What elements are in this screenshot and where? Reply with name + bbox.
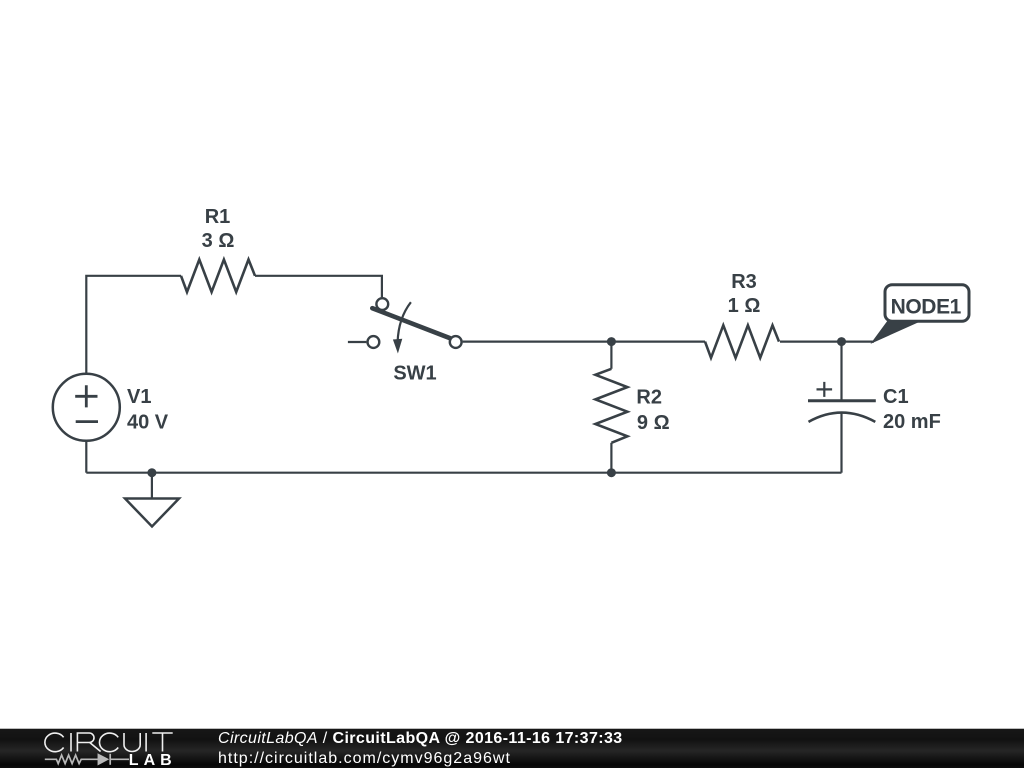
- resistor R2: [595, 369, 627, 443]
- wire R2 bottom: [610, 443, 612, 473]
- wire SW1 right terminal to node A: [463, 341, 612, 343]
- switch SW1 actuation arrow: [398, 302, 411, 342]
- logo letter I: [70, 733, 72, 752]
- svg-text:C1: C1: [883, 386, 909, 408]
- capacitor C1 polarity plus sign: [817, 382, 833, 397]
- wire R3 to node B: [780, 341, 842, 343]
- svg-text:R1: R1: [205, 206, 231, 228]
- logo letter T: [152, 733, 172, 752]
- capacitor C1 curved bottom plate: [809, 413, 876, 422]
- svg-text:40 V: 40 V: [127, 412, 169, 434]
- bottom net junction dot at R2: [607, 468, 616, 477]
- voltage source V1: [53, 374, 120, 441]
- V1 minus sign: [76, 420, 98, 423]
- svg-text:SW1: SW1: [393, 363, 436, 385]
- footer url line 2: [218, 750, 511, 768]
- svg-text:20 mF: 20 mF: [883, 411, 941, 433]
- logo letter C: [45, 733, 64, 752]
- wire R2 top: [610, 342, 612, 369]
- wire node B to NODE1 flag tip: [842, 341, 875, 343]
- switch SW1 bottom throw circle: [368, 336, 380, 348]
- ground stub wire: [151, 473, 153, 499]
- NODE1 pointer: [874, 321, 920, 341]
- capacitor C1: [808, 382, 876, 422]
- ground symbol: [125, 473, 179, 527]
- footer bar: [0, 728, 1024, 768]
- svg-text:NODE1: NODE1: [891, 295, 962, 318]
- NODE1 box: [885, 285, 969, 321]
- wire node A to R3: [611, 341, 705, 343]
- svg-text:9 Ω: 9 Ω: [637, 412, 670, 434]
- logo letter I2: [145, 733, 147, 752]
- svg-text:1 Ω: 1 Ω: [728, 295, 761, 317]
- wire top-left net (V1 top to R1): [86, 276, 181, 374]
- CircuitLab logo: [0, 728, 200, 768]
- logo diode triangle: [98, 755, 107, 765]
- logo letter U: [124, 733, 140, 752]
- V1 plus sign: [75, 385, 97, 407]
- node A junction dot: [607, 337, 616, 346]
- svg-text:3 Ω: 3 Ω: [202, 230, 235, 252]
- node B junction dot: [837, 337, 846, 346]
- logo letter R: [77, 733, 100, 752]
- switch SW1 bar: [372, 308, 450, 338]
- switch SW1 common circle: [450, 336, 462, 348]
- node flag NODE1: [874, 285, 970, 342]
- V1 circle: [53, 374, 120, 441]
- ground triangle: [125, 499, 179, 527]
- capacitor C1 top plate: [808, 399, 876, 402]
- wire C1 top: [840, 342, 842, 401]
- wire V1 bottom: [85, 441, 87, 473]
- svg-text:LAB: LAB: [129, 752, 177, 768]
- resistor R3: [705, 325, 779, 358]
- logo resistor squiggle: [45, 755, 99, 764]
- switch SW1: [348, 298, 462, 353]
- svg-text:R3: R3: [731, 271, 757, 293]
- switch SW1 top throw circle: [376, 298, 388, 310]
- svg-text:V1: V1: [127, 386, 151, 408]
- logo wire to LAB: [110, 758, 129, 760]
- logo diode cathode bar: [109, 754, 111, 765]
- wire bottom net: [86, 472, 841, 474]
- footer attribution line 1: [218, 730, 623, 748]
- svg-text:R2: R2: [636, 386, 662, 408]
- logo letter C2: [99, 733, 118, 752]
- wire C1 bottom: [840, 414, 842, 473]
- resistor R1: [181, 260, 255, 293]
- bottom net junction dot at ground: [147, 468, 156, 477]
- switch SW1 bottom throw stub wire: [348, 341, 367, 343]
- wire R1 to SW1: [255, 276, 382, 298]
